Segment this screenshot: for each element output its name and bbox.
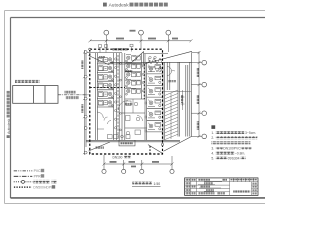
notes block heading — [211, 125, 215, 129]
wire top wall right — [144, 53, 168, 55]
left dimension texts rotated — [81, 60, 83, 113]
wire top-left diagonal — [89, 56, 110, 66]
cross light marks right room — [181, 90, 185, 110]
legend row 4 DN500 HDPE pipe dotted — [14, 185, 55, 189]
svg-text:Autodesk: Autodesk — [7, 118, 11, 134]
interior vertical wall E double — [178, 62, 180, 136]
wire bottom wall double — [86, 140, 180, 142]
title block row lines — [185, 182, 230, 192]
callout leader from table to plan — [58, 94, 90, 96]
svg-text:3~5cm.: 3~5cm. — [245, 131, 256, 135]
middle stack fixtures — [126, 55, 141, 96]
svg-text:PVC: PVC — [34, 169, 42, 173]
top cluster pipe circles — [149, 56, 156, 58]
bottom axis bubbles — [102, 169, 174, 173]
svg-text:1.: 1. — [211, 131, 214, 135]
door swing arcs middle rooms — [104, 67, 175, 125]
svg-text:1:50: 1:50 — [154, 182, 161, 186]
svg-text:2.: 2. — [211, 136, 214, 140]
legend row 1 PVC pipe — [14, 169, 45, 173]
title block text smudges — [185, 179, 257, 195]
svg-text:5.: 5. — [211, 157, 214, 161]
right stack unit dividers — [147, 74, 163, 132]
bottom bay box — [119, 140, 135, 146]
bottom wall fixture cluster — [108, 135, 113, 139]
note line 4 — [211, 151, 245, 155]
stair landing line — [163, 91, 191, 93]
svg-text:DN100: DN100 — [113, 155, 123, 159]
middle room short wall — [132, 99, 134, 113]
room label text smudges — [96, 48, 177, 149]
drain exit dashed drop — [149, 146, 151, 154]
zigzag pipe cluster right — [148, 58, 162, 72]
top autodesk banner text — [103, 3, 168, 9]
title block value underlines — [198, 181, 222, 191]
pipe riser circles shaft — [115, 58, 122, 131]
pipe shaft corridor verticals — [114, 53, 125, 140]
pipe riser circles column C — [142, 65, 147, 132]
title block column lines — [191, 178, 230, 196]
right dimension line — [191, 51, 201, 138]
legend row 2 PPR pipe — [14, 174, 45, 178]
wire right outer wall — [190, 53, 192, 137]
svg-text:~0.8m.: ~0.8m. — [235, 151, 246, 155]
top axis bubbles — [104, 30, 171, 35]
bottom dimension texts — [110, 161, 160, 167]
middle stack unit dividers — [125, 64, 142, 89]
right stack fixtures — [148, 65, 161, 130]
title block right mini column — [252, 182, 259, 196]
wire top wall left — [86, 52, 122, 54]
boundary corner circle — [89, 48, 91, 50]
bottom dimension line — [103, 155, 174, 169]
title block outer border — [185, 178, 258, 196]
top dimension line — [89, 35, 193, 52]
svg-text:3.: 3. — [211, 146, 214, 150]
note line 5 — [211, 157, 245, 161]
top dimension texts — [116, 30, 178, 40]
wire upper corridor wall double — [110, 62, 191, 64]
wire bottom-left bay diagonal — [89, 142, 110, 151]
left stack fixtures — [98, 57, 113, 106]
svg-text:Autodesk: Autodesk — [109, 3, 130, 9]
interior vertical wall D2 double — [167, 62, 170, 90]
stair treads — [163, 90, 191, 140]
middle lower room fixtures — [126, 101, 141, 135]
left axis circles — [84, 51, 87, 154]
bold dashed pipe main horizontal — [90, 87, 125, 89]
interior vertical wall D double — [163, 62, 165, 140]
note line 2 continuation — [211, 141, 250, 144]
outer sheet frame — [5, 11, 266, 204]
interior vertical wall A double — [96, 53, 98, 140]
inner sheet frame — [11, 18, 266, 199]
bold dashed pipe main vertical — [143, 64, 145, 99]
callout text above leader — [65, 91, 77, 94]
left dimension line — [83, 50, 86, 155]
middle room divider walls — [122, 99, 147, 128]
stair rail — [170, 93, 172, 139]
right axis bubbles — [202, 60, 207, 138]
svg-text:DN500HDPE: DN500HDPE — [33, 185, 54, 189]
right dimension texts rotated — [197, 68, 199, 130]
title block right header row — [230, 178, 258, 182]
svg-text:PPR: PPR — [34, 175, 42, 179]
door bowtie top-right room — [167, 67, 175, 76]
note line 2 — [211, 136, 257, 140]
wire big roof diagonal — [144, 51, 192, 64]
svg-text:DN100PVC: DN100PVC — [223, 146, 241, 150]
wire small diagonal — [131, 52, 144, 64]
lower-left room door arc — [97, 99, 133, 139]
wire top mid vertical — [143, 52, 145, 65]
left detail table — [13, 86, 58, 104]
vent pipe boxes above top wall — [99, 44, 134, 52]
interior vertical wall C double — [141, 54, 146, 141]
corridor pipe dashed line — [117, 55, 119, 139]
plan caption title underlined — [132, 182, 161, 187]
note line 3 — [211, 146, 251, 150]
svg-text:09S304: 09S304 — [228, 157, 240, 161]
wire left outer wall — [85, 53, 87, 148]
note line 1 — [211, 131, 256, 135]
svg-text:4.: 4. — [211, 151, 214, 155]
legend row 3 rain pipe with circle — [14, 180, 57, 184]
wire bottom-right bay diagonal — [148, 145, 163, 154]
interior vertical wall G double right — [186, 65, 188, 137]
left stack unit dividers — [97, 64, 113, 107]
wire bottom-right diagonal — [164, 137, 192, 152]
callout text below leader — [66, 96, 80, 99]
heavy dashed work boundary — [90, 49, 163, 154]
left autodesk banner text (rotated) — [7, 91, 11, 138]
left detail table title text — [15, 79, 40, 83]
